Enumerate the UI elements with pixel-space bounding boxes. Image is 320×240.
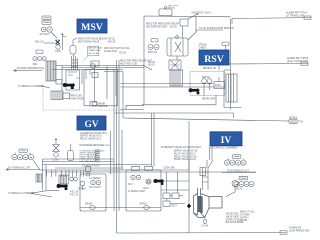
wire RSV body stems bbox=[177, 17, 196, 61]
RSV boundary box bbox=[121, 16, 231, 110]
wire diagonal to RSV bbox=[143, 65, 152, 70]
svg-text:REACTOR PRESSURE RELIEF: REACTOR PRESSURE RELIEF bbox=[146, 23, 180, 26]
wire RSV right stem bbox=[225, 45, 227, 50]
svg-text:NOTE 3: NOTE 3 bbox=[289, 118, 298, 120]
svg-text:NO-4 NO-5: NO-4 NO-5 bbox=[89, 187, 101, 189]
svg-text:NO-05: NO-05 bbox=[170, 27, 177, 29]
wire hyd chamber GV leader bbox=[32, 191, 53, 198]
svg-text:PT B: PT B bbox=[298, 122, 304, 124]
svg-text:TEST SOL: TEST SOL bbox=[168, 5, 180, 7]
svg-text:DRAIN: DRAIN bbox=[85, 203, 92, 206]
block RSV pilot dashed bbox=[190, 72, 225, 96]
label RSV pilot bbox=[202, 77, 221, 87]
wire trunk vertical IV body bbox=[188, 121, 190, 233]
svg-text:MO-25: MO-25 bbox=[108, 42, 116, 44]
wire servo vertical bbox=[94, 66, 96, 102]
svg-text:SERVO VALVE NO-2: SERVO VALVE NO-2 bbox=[80, 135, 103, 138]
valve RSV lower block bbox=[170, 70, 183, 86]
instrument circle GV com bbox=[54, 152, 59, 157]
wire GV comb drops bbox=[47, 170, 84, 177]
svg-text:CHEST: CHEST bbox=[199, 47, 207, 49]
label IV bottom bbox=[140, 203, 147, 206]
block GV label box bbox=[77, 116, 106, 130]
svg-text:DRAIN: DRAIN bbox=[240, 219, 247, 222]
wire hydraulic chamber leader bbox=[41, 86, 50, 88]
tag PCV top left 1 bbox=[42, 16, 51, 20]
instrument circles IV row2 bbox=[234, 181, 254, 186]
svg-text:CV-4A: CV-4A bbox=[202, 225, 209, 228]
wire GV servo drop bbox=[110, 131, 112, 174]
svg-text:TO HYDRAULIC LIFT: TO HYDRAULIC LIFT bbox=[8, 166, 31, 169]
label hydraulic chamber MSV bbox=[19, 85, 45, 88]
svg-text:SERVO: SERVO bbox=[202, 77, 210, 79]
svg-text:SEAT DRAIN VALVE: SEAT DRAIN VALVE bbox=[78, 41, 100, 44]
actuator GV black piston bbox=[57, 184, 69, 190]
wire RSV bottom nested lines bbox=[115, 95, 234, 118]
wire mid horizontal pair bbox=[121, 84, 226, 87]
label IV left col bbox=[240, 211, 255, 222]
svg-text:DRAIN ISOL: DRAIN ISOL bbox=[89, 49, 102, 52]
wire upper horizontal bundle bbox=[52, 66, 144, 70]
label under RSV bbox=[203, 67, 216, 70]
valve IV upper works bbox=[203, 160, 213, 190]
svg-text:REHEAT NO: REHEAT NO bbox=[203, 67, 216, 70]
tag IV row1 bbox=[227, 155, 244, 160]
tag left cluster 2 bbox=[36, 50, 43, 54]
svg-text:NO-22: NO-22 bbox=[108, 39, 115, 41]
svg-text:VALVE ASSY: VALVE ASSY bbox=[104, 50, 118, 53]
svg-text:MSV NO: MSV NO bbox=[148, 52, 157, 54]
label IV row2 bbox=[235, 188, 243, 191]
instrument circle FT1 bbox=[41, 27, 46, 32]
svg-text:ABOVE SEAT: ABOVE SEAT bbox=[89, 47, 103, 50]
svg-text:SERVO VALVE NO-16: SERVO VALVE NO-16 bbox=[174, 150, 198, 153]
block IV relay box bbox=[200, 168, 206, 176]
wire alarm line mid right bbox=[229, 63, 308, 66]
svg-text:TRIP FLUID: TRIP FLUID bbox=[70, 96, 83, 98]
label under circles bbox=[40, 33, 51, 36]
label SML OIL bbox=[35, 42, 45, 44]
svg-text:(LOW PRESS SW): (LOW PRESS SW) bbox=[289, 230, 310, 233]
svg-text:( HYDRAULIC CHAMBER ): ( HYDRAULIC CHAMBER ) bbox=[210, 146, 238, 149]
instrument circles RSV bbox=[148, 45, 159, 50]
svg-text:GOVERNOR VALVE FAST ACT: GOVERNOR VALVE FAST ACT bbox=[80, 144, 112, 147]
svg-text:IV: IV bbox=[221, 135, 232, 146]
svg-text:SML: SML bbox=[33, 64, 38, 66]
label above seat drain bbox=[89, 47, 103, 55]
svg-text:STEM GUIDE: STEM GUIDE bbox=[226, 219, 241, 221]
wire IV inlet lines bbox=[161, 160, 189, 190]
wire alarm line top right bbox=[232, 18, 311, 24]
wire MSV riser rungs bbox=[72, 60, 78, 67]
svg-text:DRAIN: DRAIN bbox=[98, 102, 105, 105]
label GV list 1 bbox=[80, 132, 108, 141]
label to oil service bbox=[199, 27, 234, 30]
valve GV pilot X bbox=[53, 139, 60, 152]
svg-text:IV SERVO ASSY: IV SERVO ASSY bbox=[128, 190, 146, 193]
instrument circles RSV pilot bbox=[202, 79, 212, 84]
label hydraulic chamber GV bbox=[9, 192, 35, 195]
label RSV text block bbox=[146, 23, 180, 29]
label COM LINE bbox=[164, 168, 176, 170]
instrument circles IV box bbox=[131, 175, 141, 179]
svg-text:MO-26 AO: MO-26 AO bbox=[89, 52, 100, 55]
actuator RSV black piston bbox=[189, 88, 200, 94]
wire bottom trunk line bbox=[117, 232, 287, 235]
actuator IV black piston bbox=[153, 179, 164, 185]
svg-text:COM: COM bbox=[55, 51, 60, 53]
node alarm label A bbox=[286, 12, 311, 20]
label MSV test jack bbox=[191, 12, 212, 15]
svg-text:FAST: FAST bbox=[215, 84, 221, 87]
instrument circle FT2 bbox=[47, 27, 52, 32]
svg-text:NO-8: NO-8 bbox=[143, 188, 149, 190]
svg-text:GV RELAY ASSY: GV RELAY ASSY bbox=[82, 165, 100, 168]
svg-text:(LT TRAVEL SW): (LT TRAVEL SW) bbox=[286, 15, 305, 18]
label note right bbox=[289, 118, 298, 120]
node alarm label C bbox=[288, 119, 304, 124]
label trip fluid dump bbox=[70, 96, 85, 101]
valve MSV seat rect bbox=[56, 80, 62, 85]
label test sol valve bbox=[168, 5, 180, 10]
wire RSV top box arrow bbox=[188, 13, 198, 19]
instrument circles left cluster 2 bbox=[33, 57, 46, 61]
label IV box inner bbox=[128, 184, 149, 193]
wire alarm line IV long bbox=[123, 118, 288, 121]
block above seat drain outline bbox=[84, 46, 99, 60]
label IV list bbox=[174, 150, 198, 161]
label CV-4A bbox=[202, 225, 209, 228]
svg-text:MSV FAST ACTING SOL: MSV FAST ACTING SOL bbox=[104, 47, 130, 50]
svg-text:STEAM: STEAM bbox=[199, 44, 207, 47]
block RSV pilot rect bbox=[214, 82, 225, 89]
block RSV top small box bbox=[180, 19, 188, 26]
tag RSV right bbox=[222, 42, 229, 45]
svg-text:SML OIL: SML OIL bbox=[35, 42, 45, 44]
svg-text:GOVERNOR VALVE NO-1: GOVERNOR VALVE NO-1 bbox=[80, 132, 108, 135]
svg-text:PILOT VALVE NO-17: PILOT VALVE NO-17 bbox=[174, 153, 196, 156]
wire GV row leader bbox=[33, 160, 40, 170]
svg-text:NO-08: NO-08 bbox=[119, 53, 126, 55]
label MSV description bbox=[78, 38, 116, 44]
svg-text:TO DRAIN HEADER AT EL: TO DRAIN HEADER AT EL bbox=[17, 67, 46, 70]
instrument circles GV row bbox=[12, 155, 34, 160]
svg-text:RELAY VALVE NO-18: RELAY VALVE NO-18 bbox=[174, 155, 197, 158]
valve IV body cross-section bbox=[194, 188, 223, 217]
valve GV cylinder bbox=[68, 144, 74, 161]
svg-text:MAIN T G OIL: MAIN T G OIL bbox=[240, 211, 255, 214]
block MSV pilot box bbox=[66, 70, 80, 90]
wire trunk vertical IV pair bbox=[152, 113, 155, 167]
instrument oval servo drain bbox=[92, 102, 97, 106]
block MSV label box bbox=[77, 19, 107, 33]
block IV assembly boundary bbox=[126, 170, 161, 211]
block IV label box bbox=[210, 132, 242, 146]
svg-text:GV SERVO: GV SERVO bbox=[89, 178, 101, 180]
wire hyd lift IV line bbox=[222, 172, 256, 174]
svg-text:4/3C 15: 4/3C 15 bbox=[70, 195, 79, 197]
label steam chest bbox=[199, 44, 207, 50]
svg-text:MAIN STOP VALVE BELOW: MAIN STOP VALVE BELOW bbox=[78, 38, 108, 41]
svg-text:COM LINE: COM LINE bbox=[164, 168, 176, 170]
svg-text:NO-7: NO-7 bbox=[128, 184, 134, 186]
wire IV box drop pair bbox=[210, 146, 213, 160]
wire MSV riser bundle bbox=[72, 54, 78, 70]
svg-text:MSV: MSV bbox=[81, 22, 103, 33]
instrument circle IV double bbox=[146, 179, 151, 184]
svg-text:DAC-B: DAC-B bbox=[235, 188, 243, 191]
wire GV supply header bbox=[40, 159, 256, 172]
block GV spring hatch bbox=[36, 174, 42, 182]
svg-text:VALVE DISC: VALVE DISC bbox=[226, 213, 240, 216]
label reactor pres text bbox=[120, 60, 152, 66]
wire GV to box connections bbox=[48, 190, 59, 192]
svg-text:REACTOR PRES RELIEF ANT: REACTOR PRES RELIEF ANT bbox=[120, 60, 152, 63]
svg-text:DUMP VALVE NO-19: DUMP VALVE NO-19 bbox=[174, 158, 197, 161]
svg-text:RSV: RSV bbox=[204, 54, 224, 65]
label TO HYDRAULIC LIFT IV bbox=[227, 169, 250, 172]
svg-text:AFT MOV: AFT MOV bbox=[40, 33, 51, 36]
svg-text:TO HYDRAULIC LIFT: TO HYDRAULIC LIFT bbox=[227, 169, 250, 172]
wire TO HYDRAULIC LIFT arrow bbox=[6, 168, 40, 170]
svg-text:4/3C 14: 4/3C 14 bbox=[70, 192, 79, 194]
svg-text:DISC VALVE ASSY: DISC VALVE ASSY bbox=[80, 160, 99, 163]
label SML2 bbox=[33, 64, 38, 66]
label COM bbox=[55, 51, 60, 53]
svg-text:SUPPLY: SUPPLY bbox=[240, 217, 249, 219]
label RSV drain bbox=[202, 98, 216, 101]
label GV list 2 bbox=[80, 144, 112, 163]
tag GV row bbox=[15, 149, 32, 155]
block small servo rect bbox=[92, 73, 98, 78]
svg-text:VALVE SEAT: VALVE SEAT bbox=[226, 216, 240, 219]
svg-text:INTERCEPT VALVE ACTUATOR ASSY: INTERCEPT VALVE ACTUATOR ASSY bbox=[161, 146, 202, 149]
block GV mid box bbox=[86, 167, 91, 177]
tag IV box 2 bbox=[145, 166, 153, 170]
svg-text:HYDRAULIC CHAMBER: HYDRAULIC CHAMBER bbox=[9, 192, 35, 195]
valve RSV actuator body bbox=[167, 36, 188, 56]
node alarm label D bbox=[280, 227, 310, 235]
wire GV verticals bbox=[43, 159, 47, 191]
MSV boundary partial bbox=[43, 88, 123, 110]
svg-text:DRAIN ORIF: DRAIN ORIF bbox=[202, 98, 216, 101]
wire to oil underline bbox=[196, 30, 223, 32]
valve MSV spring block bbox=[46, 61, 56, 81]
block MSV dump rect bbox=[63, 93, 70, 99]
label GV mid small bbox=[82, 165, 100, 168]
svg-text:NO-10: NO-10 bbox=[148, 65, 155, 67]
label IV legend bbox=[226, 213, 244, 224]
svg-text:SERVO: SERVO bbox=[78, 189, 86, 191]
label RSV circles bbox=[148, 52, 157, 54]
wire bottom header GV IV bbox=[80, 207, 161, 209]
block test solenoid bbox=[159, 7, 172, 17]
svg-text:ASSY RSV COD: ASSY RSV COD bbox=[120, 63, 138, 66]
instrument oval IV stem bbox=[203, 219, 206, 223]
block GV list2 value boxes bbox=[79, 145, 104, 162]
instrument circles GV box bbox=[91, 180, 101, 185]
instrument circle COM bbox=[56, 45, 60, 49]
label GV com bbox=[53, 159, 58, 161]
svg-text:SYSTEM: SYSTEM bbox=[240, 215, 250, 217]
label GV left circ bbox=[78, 189, 86, 191]
tag PCV top left 2 bbox=[42, 21, 51, 25]
label GV numbers bbox=[70, 192, 79, 197]
wire TO DRAIN header bbox=[14, 69, 43, 71]
wire IV pump drops bbox=[167, 172, 178, 201]
label GV box inner bbox=[89, 178, 101, 189]
block MSV servo boundary bbox=[84, 70, 118, 106]
label RSV numbers bbox=[148, 62, 155, 67]
wire trunk vertical bundle bbox=[114, 60, 119, 233]
label drain orifice MSV bbox=[98, 102, 108, 108]
svg-text:TEST: TEST bbox=[171, 206, 177, 208]
label TO DRAIN bbox=[17, 67, 46, 70]
block MSV lower chamber bbox=[51, 91, 63, 100]
label IV description bbox=[210, 146, 238, 149]
tag IV row2 bbox=[239, 176, 248, 180]
svg-text:GV: GV bbox=[84, 120, 98, 130]
valve RSV spring block bbox=[169, 60, 181, 70]
instrument circle MSV servo bbox=[91, 64, 96, 69]
valve SML X-symbol bbox=[56, 34, 67, 51]
wire MSV internals bbox=[62, 66, 107, 100]
block GV assembly boundary bbox=[80, 174, 106, 211]
label MSV fast acting bbox=[104, 47, 130, 54]
tag IV box 1 bbox=[132, 166, 140, 170]
svg-text:COM: COM bbox=[53, 159, 58, 161]
instrument circle IV actuator bbox=[226, 181, 238, 197]
svg-text:( MSV TEST JACK ): ( MSV TEST JACK ) bbox=[191, 12, 212, 15]
label IV pump bbox=[171, 206, 177, 208]
block GV valve assembly bbox=[59, 175, 69, 184]
block IV pump rects bbox=[163, 193, 185, 207]
node alarm label B bbox=[287, 57, 309, 65]
wire SML leader bbox=[44, 42, 55, 44]
svg-text:HYDRAULIC CHAMBER: HYDRAULIC CHAMBER bbox=[19, 85, 45, 88]
instrument oval IV bottom bbox=[144, 206, 150, 210]
wire trunk vertical short bbox=[122, 72, 123, 170]
svg-text:DUMP VALVE: DUMP VALVE bbox=[70, 98, 85, 101]
svg-text:DRAIN: DRAIN bbox=[140, 203, 147, 206]
block drain orifice MSV bbox=[90, 102, 97, 107]
label GV bottom bbox=[85, 203, 92, 206]
instrument circles GV small bbox=[70, 177, 78, 181]
label TO HYDRAULIC LIFT bbox=[8, 166, 31, 169]
tag RSV inner bbox=[151, 39, 158, 42]
block RSV label box bbox=[199, 50, 229, 65]
wire circles leader bbox=[51, 32, 57, 38]
svg-text:(FULL CLOSE SW): (FULL CLOSE SW) bbox=[287, 60, 308, 63]
instrument oval GV bottom bbox=[90, 206, 96, 210]
svg-text:ORIFICE: ORIFICE bbox=[98, 106, 108, 108]
svg-text:RELAY VALVE NO-3: RELAY VALVE NO-3 bbox=[80, 137, 102, 140]
svg-text:TO OIL PURIFICATION SERVICE: TO OIL PURIFICATION SERVICE bbox=[199, 27, 234, 30]
instrument circle GV left bbox=[80, 181, 85, 190]
label intercept actuator bbox=[161, 146, 202, 149]
instrument circles IV row1 bbox=[224, 160, 246, 165]
block RSV valve lower outline bbox=[224, 70, 242, 108]
valve cylinder below-seat bbox=[70, 38, 77, 54]
wire MSV box corner lines bbox=[104, 72, 123, 96]
wire RSV pilot stems bbox=[204, 64, 219, 96]
block servo top box bbox=[91, 61, 99, 66]
actuator MSV black piston bbox=[63, 83, 75, 89]
svg-text:ANTICIPATOR ASSY: ANTICIPATOR ASSY bbox=[146, 26, 168, 29]
node black diamond junction bbox=[187, 204, 191, 209]
